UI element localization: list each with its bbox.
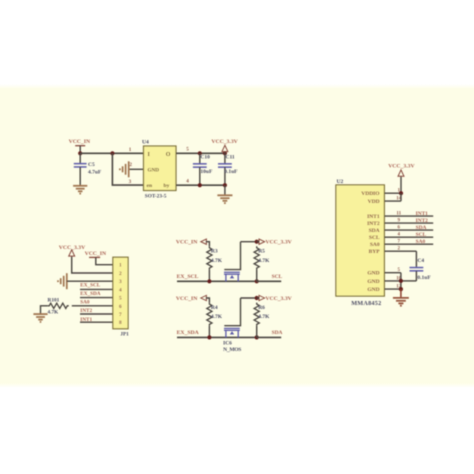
wire net EX_SCL to JP1 pin4 xyxy=(80,288,113,290)
resistor R4 xyxy=(207,303,212,326)
svg-text:en: en xyxy=(147,183,153,189)
svg-text:1: 1 xyxy=(119,263,122,269)
wire net EX_SCL row xyxy=(177,280,257,282)
svg-text:INT1: INT1 xyxy=(80,317,92,323)
svg-text:4: 4 xyxy=(119,287,122,293)
svg-text:2: 2 xyxy=(119,271,122,277)
capacitor C11 xyxy=(224,153,226,164)
wire net INT1 to JP1 pin8 xyxy=(80,321,113,323)
svg-text:7: 7 xyxy=(119,312,122,318)
pin 9 INT2 of U2 xyxy=(384,222,433,224)
ground below R101 xyxy=(33,313,47,315)
svg-text:SDA: SDA xyxy=(272,330,283,336)
svg-text:U2: U2 xyxy=(337,179,344,185)
svg-text:U4: U4 xyxy=(142,139,149,145)
wire R5 to signal row xyxy=(256,270,258,282)
power flag VCC_3.3V (arrow) xyxy=(259,239,265,244)
wire gnd to JP1 pin3 xyxy=(67,280,113,282)
power flag VCC_3.3V (arrow) xyxy=(259,295,265,300)
resistor R5 xyxy=(254,246,259,269)
svg-text:VDD: VDD xyxy=(368,199,380,205)
pin 14 VDD of U2 xyxy=(384,200,401,202)
wire resistor to signal row xyxy=(208,270,210,282)
svg-text:SA0: SA0 xyxy=(370,242,380,248)
pin 5 GND of U2 xyxy=(384,272,401,274)
svg-text:EX_SCL: EX_SCL xyxy=(177,274,199,280)
node junction at x112 xyxy=(110,151,114,155)
wire VCC to VDDIO xyxy=(400,177,402,194)
svg-text:EX_SDA: EX_SDA xyxy=(80,291,100,297)
svg-text:INT1: INT1 xyxy=(416,211,429,217)
ic U2 body xyxy=(336,185,385,296)
wire gate rail to VCC_3.3V xyxy=(241,297,257,299)
wire R6 to signal row xyxy=(256,326,258,338)
pin 2 BYP of U2 xyxy=(384,250,416,252)
svg-text:2: 2 xyxy=(129,162,132,168)
svg-text:SOT-23-5: SOT-23-5 xyxy=(145,194,167,200)
node at R6 top xyxy=(255,296,259,300)
svg-text:MMA8452: MMA8452 xyxy=(351,300,381,307)
ground (rotated) at U4 pin2 xyxy=(128,161,130,177)
node at R5 bottom xyxy=(255,279,259,283)
svg-text:6: 6 xyxy=(119,304,122,310)
wire VCC_IN arrow to resistor xyxy=(206,242,210,247)
ground below C11 xyxy=(217,194,232,196)
resistor R3 xyxy=(207,246,212,269)
wire U4 pin5 output xyxy=(176,152,225,154)
pin 1 VDDIO of U2 xyxy=(384,192,401,194)
svg-text:4.7K: 4.7K xyxy=(258,314,270,320)
svg-text:4.7K: 4.7K xyxy=(211,314,223,320)
wire gnd rail vertical xyxy=(400,273,402,289)
resistor R6 xyxy=(254,303,259,326)
svg-text:by: by xyxy=(164,183,170,189)
svg-text:C11: C11 xyxy=(226,155,235,161)
paper background xyxy=(0,84,474,89)
svg-text:GND: GND xyxy=(367,287,379,293)
svg-text:JP1: JP1 xyxy=(120,331,129,337)
svg-text:VCC_3.3V: VCC_3.3V xyxy=(59,245,86,251)
wire net SCL xyxy=(257,280,282,282)
svg-text:SDA: SDA xyxy=(369,228,380,234)
svg-text:SCL: SCL xyxy=(272,274,283,280)
svg-text:SDA: SDA xyxy=(416,225,427,231)
svg-text:N_MOS: N_MOS xyxy=(223,347,241,353)
svg-text:R6: R6 xyxy=(258,305,265,311)
svg-text:INT2: INT2 xyxy=(367,221,380,227)
regulator U4 body xyxy=(144,146,177,191)
node VCC_IN junction xyxy=(78,151,82,155)
svg-text:VDDIO: VDDIO xyxy=(361,191,380,197)
capacitor C10 xyxy=(199,153,201,164)
svg-text:3: 3 xyxy=(119,279,122,285)
svg-text:GND: GND xyxy=(367,271,379,277)
pin 6 SDA of U2 xyxy=(384,229,433,231)
svg-text:INT2: INT2 xyxy=(80,308,92,314)
ground below C5 xyxy=(73,185,87,187)
svg-text:VCC_3.3V: VCC_3.3V xyxy=(211,139,238,145)
svg-text:BYP: BYP xyxy=(369,249,381,255)
svg-text:0.1uF: 0.1uF xyxy=(224,169,238,175)
node at R3 bottom xyxy=(207,279,211,283)
svg-text:EX_SDA: EX_SDA xyxy=(177,330,200,336)
wire VCC_3.3V to JP1 pin2 xyxy=(72,257,113,273)
wire VDD up to VDDIO node xyxy=(400,193,402,201)
svg-text:SA0: SA0 xyxy=(416,239,426,245)
svg-text:4.7K: 4.7K xyxy=(48,310,60,316)
ground (rotated) at JP1 pin3 xyxy=(66,273,68,289)
svg-text:R5: R5 xyxy=(258,249,265,255)
wire VCC_IN to JP1 pin1 xyxy=(96,257,113,264)
svg-text:1: 1 xyxy=(129,147,132,153)
wire to ground symbol xyxy=(400,289,402,297)
node at R5 top xyxy=(255,240,259,244)
svg-text:SCL: SCL xyxy=(369,235,380,241)
connector JP1 body xyxy=(113,257,128,329)
svg-text:3: 3 xyxy=(129,179,132,185)
wire to ground xyxy=(224,185,226,195)
svg-text:INT1: INT1 xyxy=(367,214,380,220)
wire U4 pin2 stub xyxy=(129,168,144,170)
wire gate rail to VCC_3.3V xyxy=(241,241,257,243)
node at C11 top xyxy=(223,151,227,155)
svg-text:VCC_3.3V: VCC_3.3V xyxy=(265,240,292,246)
svg-text:4: 4 xyxy=(186,178,189,184)
node at C10 top xyxy=(198,151,202,155)
svg-text:O: O xyxy=(166,152,171,158)
svg-text:R4: R4 xyxy=(211,305,218,311)
svg-text:SCL: SCL xyxy=(416,232,427,238)
svg-text:IC6: IC6 xyxy=(223,340,232,346)
pin 10 GND of U2 xyxy=(384,280,401,282)
node gnd rail pin12 xyxy=(399,287,403,291)
svg-text:C10: C10 xyxy=(200,155,210,161)
svg-text:INT2: INT2 xyxy=(416,218,429,224)
svg-text:VCC_3.3V: VCC_3.3V xyxy=(388,163,415,169)
resistor R101 xyxy=(48,303,69,308)
pin 4 SCL of U2 xyxy=(384,236,433,238)
n-mosfet level shifter xyxy=(224,298,240,326)
n-mosfet level shifter xyxy=(224,242,240,270)
wire C4 bottom to gnd rail xyxy=(401,280,417,282)
svg-text:VCC_IN: VCC_IN xyxy=(85,251,107,257)
svg-text:5: 5 xyxy=(119,296,122,302)
node at R4 bottom xyxy=(207,335,211,339)
wire net EX_SDA to JP1 pin5 xyxy=(80,297,113,299)
wire net INT2 to JP1 pin7 xyxy=(80,313,113,315)
wire net SDA xyxy=(257,336,282,338)
svg-text:R3: R3 xyxy=(211,249,218,255)
svg-text:C4: C4 xyxy=(417,258,424,264)
svg-text:R101: R101 xyxy=(48,298,60,304)
node gnd rail pin10 xyxy=(399,279,403,283)
wire U4 pin4 to ground rail xyxy=(176,184,225,186)
svg-text:4.7K: 4.7K xyxy=(211,258,223,264)
wire resistor to signal row xyxy=(208,326,210,338)
pin 7 SA0 of U2 xyxy=(384,243,433,245)
wire net EX_SDA row xyxy=(177,336,257,338)
svg-text:SA0: SA0 xyxy=(80,300,90,306)
svg-text:C5: C5 xyxy=(88,162,95,168)
pin 11 INT1 of U2 xyxy=(384,215,433,217)
svg-text:4.7uF: 4.7uF xyxy=(88,170,102,176)
svg-text:GND: GND xyxy=(148,167,160,173)
svg-text:GND: GND xyxy=(367,279,379,285)
wire R101 to ground xyxy=(41,306,48,314)
wire VCC_IN to U4 pin1 xyxy=(80,152,143,154)
wire SA0 row to JP1 pin6 xyxy=(72,305,113,307)
svg-text:0.1uF: 0.1uF xyxy=(417,275,431,281)
svg-text:VCC_IN: VCC_IN xyxy=(176,240,198,246)
svg-text:VCC_IN: VCC_IN xyxy=(176,296,198,302)
svg-text:8: 8 xyxy=(119,320,122,326)
node at R6 bottom xyxy=(255,335,259,339)
node VDDIO-VCC junction xyxy=(399,191,403,195)
svg-text:11: 11 xyxy=(396,212,401,217)
svg-text:VCC_IN: VCC_IN xyxy=(69,139,91,145)
wire BYP to C4 xyxy=(415,251,417,267)
svg-text:5: 5 xyxy=(186,146,189,152)
ground below U2 xyxy=(393,297,409,299)
node at C11 bottom xyxy=(223,183,227,187)
svg-text:10uF: 10uF xyxy=(200,169,213,175)
capacitor C4 xyxy=(415,266,417,269)
wire junction to U4 pin3 xyxy=(112,153,143,185)
pin 12 GND of U2 xyxy=(384,288,401,290)
svg-text:EX_SCL: EX_SCL xyxy=(80,283,100,289)
wire VCC_IN arrow to resistor xyxy=(206,298,210,303)
node at C10 bottom xyxy=(198,183,202,187)
svg-text:VCC_3.3V: VCC_3.3V xyxy=(265,296,292,302)
capacitor C5 xyxy=(79,153,81,163)
svg-text:4.7K: 4.7K xyxy=(258,258,270,264)
